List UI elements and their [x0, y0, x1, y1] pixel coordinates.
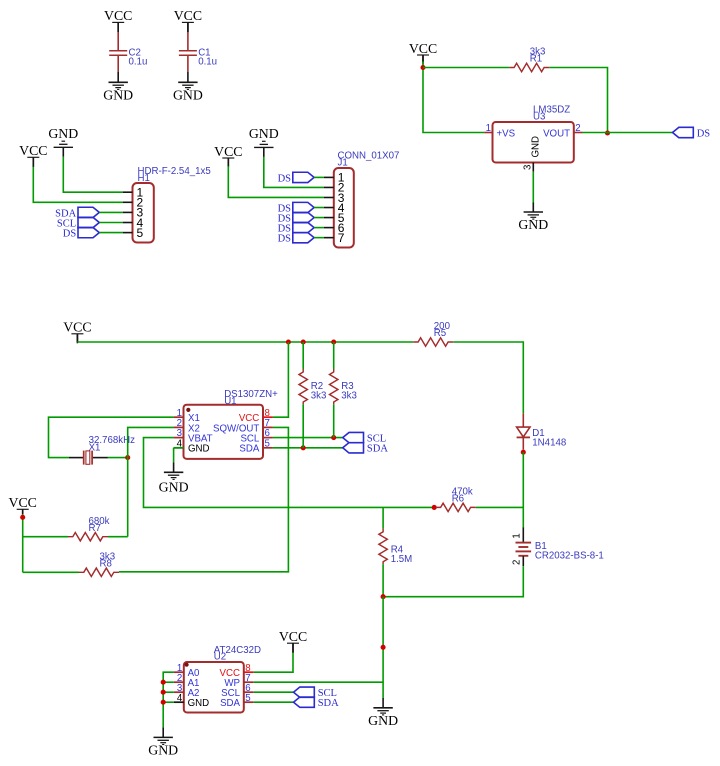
- node D1 cathode junction: [521, 450, 526, 455]
- wire DS to pin5: [314, 217, 324, 219]
- wire black GND stub: [162, 727, 164, 737]
- wire DS to pin4: [314, 207, 324, 209]
- ground (bottom right): [373, 707, 392, 709]
- svg-text:3: 3: [523, 165, 534, 170]
- resistor R5: [413, 338, 453, 346]
- wire VCC to U2 pin8: [254, 653, 293, 672]
- wire DS to pin6: [314, 227, 324, 229]
- wire crystal node down: [127, 458, 129, 537]
- connector J1 body: [334, 168, 354, 248]
- wire VCC down to U3 +VS: [423, 62, 484, 133]
- wire C1 to GND: [187, 72, 189, 83]
- wire black VCC stub: [292, 643, 294, 653]
- svg-text:5: 5: [137, 226, 144, 240]
- wire SQW/OUT to R8: [119, 427, 288, 571]
- svg-text:+VS: +VS: [497, 129, 516, 140]
- net flag DS (U3): [673, 127, 694, 137]
- resistor R2: [299, 369, 307, 404]
- wire X2: [128, 427, 174, 457]
- wire VCC to R1: [423, 67, 509, 69]
- pin 3 stub U2: [174, 691, 184, 693]
- wire DS to pin1: [314, 176, 324, 178]
- wire U2 SDA: [254, 701, 294, 703]
- pin 4 stub U1: [174, 447, 184, 449]
- diode D1 1N4148: [522, 413, 524, 427]
- pin 3 stub J1: [324, 196, 334, 198]
- svg-text:VCC: VCC: [279, 629, 307, 644]
- wire VCC to J1 pin3: [228, 166, 324, 197]
- svg-text:SDA: SDA: [318, 698, 339, 709]
- wire black VCC stub: [32, 157, 34, 167]
- wire black VCC stub: [22, 509, 24, 514]
- wire GND to J1 pin2: [264, 157, 324, 188]
- pin-1 marker U2: [185, 663, 189, 667]
- pin 6 stub U2: [244, 691, 254, 693]
- wire to R7: [23, 536, 68, 538]
- wire to R8: [23, 571, 79, 573]
- svg-text:VCC: VCC: [174, 8, 202, 23]
- svg-text:SDA: SDA: [239, 444, 259, 455]
- resistor R7: [68, 533, 108, 541]
- svg-text:VCC: VCC: [19, 143, 47, 158]
- wire U2 SCL: [254, 691, 294, 693]
- ground (U3): [524, 211, 543, 213]
- svg-text:0.1u: 0.1u: [129, 57, 148, 68]
- net flag SCL (H1 pin4): [78, 217, 99, 227]
- net flag DS (J1 pin7): [293, 232, 314, 242]
- net flag SDA (H1 pin3): [78, 207, 99, 217]
- wire R5 to D1: [453, 342, 523, 413]
- pin 6 stub U1: [263, 437, 273, 439]
- wire U1 VCC to rail: [273, 342, 289, 417]
- svg-text:SDA: SDA: [367, 444, 388, 455]
- node crystal/X2 junction: [125, 455, 130, 460]
- pin 2 stub J1: [324, 186, 334, 188]
- svg-text:0.1u: 0.1u: [198, 57, 217, 68]
- wire U2 pin3 to bus: [163, 691, 174, 693]
- pin 7 stub U1: [263, 426, 273, 428]
- net flag SDA (U2): [294, 697, 315, 707]
- svg-text:VOUT: VOUT: [543, 129, 570, 140]
- capacitor C2: [117, 32, 119, 50]
- wire black VCC stub: [422, 55, 424, 62]
- svg-text:GND: GND: [148, 742, 178, 757]
- ic U1 DS1307ZN+ body: [184, 405, 264, 459]
- svg-text:3k3: 3k3: [341, 391, 357, 402]
- wire DS to pin7: [314, 237, 324, 239]
- pin 3 stub H1: [123, 211, 133, 213]
- svg-text:X1: X1: [89, 442, 101, 453]
- resistor R6: [436, 503, 476, 511]
- net flag SCL (U2): [294, 687, 315, 697]
- pin 4 stub U2: [174, 701, 184, 703]
- pin 5 stub H1: [123, 232, 133, 234]
- wire SCL: [273, 437, 343, 439]
- resistor R8: [79, 568, 119, 576]
- svg-text:3k3: 3k3: [311, 391, 327, 402]
- wire VCC left column: [22, 514, 24, 572]
- svg-text:U1: U1: [224, 396, 236, 407]
- node VOUT junction: [605, 130, 610, 135]
- svg-text:GND: GND: [103, 87, 133, 102]
- wire D1 to B1: [522, 452, 524, 527]
- wire C2 to GND: [117, 72, 119, 83]
- node mid junction: [381, 645, 386, 650]
- wire VCC to C2: [117, 22, 119, 32]
- wire R1 to VOUT node: [549, 68, 607, 133]
- wire U3 GND down: [532, 172, 534, 203]
- wire U1 GND stub: [174, 447, 184, 449]
- svg-text:1.5M: 1.5M: [391, 554, 413, 565]
- pin 7 stub U2: [244, 681, 254, 683]
- resistor R3: [330, 369, 338, 404]
- svg-text:R5: R5: [434, 328, 446, 339]
- svg-text:GND: GND: [173, 87, 203, 102]
- pin 2 VOUT: [574, 132, 583, 134]
- pin 3 stub U1: [174, 437, 184, 439]
- pin 5 stub U1: [263, 447, 273, 449]
- wire SDA to pin3: [99, 211, 122, 213]
- wire U2 pin2 to bus: [163, 681, 174, 683]
- svg-text:H1: H1: [138, 173, 150, 184]
- pin 1 stub U1: [174, 416, 184, 418]
- wire rail to R2: [302, 342, 304, 369]
- wire B1 to R4 node: [383, 566, 523, 597]
- svg-text:4: 4: [177, 693, 183, 704]
- node R4 bottom junction: [381, 594, 386, 599]
- pin 4 stub H1: [123, 222, 133, 224]
- svg-text:DS: DS: [697, 128, 711, 139]
- svg-text:GND: GND: [188, 698, 210, 709]
- wire DS to pin5: [99, 232, 122, 234]
- svg-text:5: 5: [265, 438, 270, 449]
- wire black VCC stub: [76, 334, 78, 342]
- pin 2 stub U2: [174, 681, 184, 683]
- svg-text:R7: R7: [89, 523, 101, 534]
- wire SCL to pin4: [99, 222, 122, 224]
- pin 3 GND: [532, 163, 534, 172]
- wire U1 GND down: [173, 448, 175, 463]
- crystal X1 32.768kHz: [69, 457, 83, 459]
- wire X1 loop: [49, 417, 174, 457]
- net flag DS (J1 pin1): [293, 172, 314, 182]
- wire R3 to SCL: [333, 404, 335, 437]
- pin 8 stub U1: [263, 416, 273, 418]
- pin 1 +VS: [484, 132, 492, 134]
- svg-text:DS: DS: [278, 173, 292, 184]
- svg-text:VCC: VCC: [214, 144, 242, 159]
- svg-text:VCC: VCC: [409, 41, 437, 56]
- wire U2 address bus: [163, 672, 174, 727]
- capacitor C1: [187, 32, 189, 50]
- svg-text:U2: U2: [214, 652, 226, 663]
- net flag DS (J1 pin4): [293, 202, 314, 212]
- resistor R4: [379, 529, 387, 564]
- pin 2 stub H1: [123, 201, 133, 203]
- net flag DS (H1 pin5): [78, 227, 99, 237]
- wire U2 pin4 to bus: [163, 701, 174, 703]
- ground (U1): [164, 471, 183, 473]
- svg-text:7: 7: [338, 231, 345, 245]
- wire WP to GND net: [254, 681, 383, 683]
- svg-text:GND: GND: [48, 126, 78, 141]
- wire R6 to battery node: [476, 506, 524, 508]
- pin-1 marker U1: [186, 408, 190, 412]
- svg-text:VCC: VCC: [9, 495, 37, 510]
- svg-text:GND: GND: [518, 217, 548, 232]
- svg-text:GND: GND: [368, 713, 398, 728]
- net flag DS (J1 pin5): [293, 212, 314, 222]
- svg-text:U3: U3: [533, 111, 545, 122]
- resistor R1: [509, 63, 549, 71]
- svg-text:2: 2: [512, 560, 523, 565]
- svg-text:1N4148: 1N4148: [532, 438, 566, 449]
- pin 1 stub J1: [324, 176, 334, 178]
- pin 8 stub U2: [244, 671, 254, 673]
- op-amp U3 LM35DZ body: [493, 122, 574, 163]
- wire black GND stub: [382, 698, 384, 708]
- wire R2 to SDA: [302, 404, 304, 447]
- net flag DS (J1 pin6): [293, 222, 314, 232]
- net flag SCL (U1): [343, 432, 364, 442]
- wire VCC to C1: [187, 22, 189, 32]
- header H1 body: [133, 183, 154, 243]
- pin 1 stub U2: [174, 671, 184, 673]
- wire to R4: [382, 507, 384, 528]
- svg-text:5: 5: [245, 693, 250, 704]
- wire VCC rail: [77, 341, 413, 343]
- ic U2 AT24C32D body: [184, 662, 244, 713]
- wire GND to H1 pin1: [63, 157, 122, 192]
- node R6 left junction: [432, 505, 437, 510]
- wire SDA: [273, 447, 343, 449]
- svg-text:SDA: SDA: [220, 698, 240, 709]
- wire VOUT to DS flag: [583, 132, 673, 134]
- wire VBAT to R6: [144, 438, 435, 508]
- pin 5 stub U2: [244, 701, 254, 703]
- wire rail to R3: [333, 342, 335, 369]
- svg-text:CR2032-BS-8-1: CR2032-BS-8-1: [535, 551, 604, 562]
- net flag SDA (U1): [343, 443, 364, 453]
- ground (U2): [154, 736, 173, 738]
- wire VCC to H1 pin2: [33, 167, 122, 202]
- battery B1 CR2032-BS-8-1: [522, 527, 524, 542]
- pin 4 stub J1: [324, 207, 334, 209]
- svg-text:R6: R6: [452, 494, 464, 505]
- pin 1 stub H1: [123, 191, 133, 193]
- svg-text:DS: DS: [63, 229, 77, 240]
- ground (C2): [109, 81, 128, 83]
- svg-text:R8: R8: [100, 558, 112, 569]
- pin 5 stub J1: [324, 217, 334, 219]
- wire R4 down: [382, 564, 384, 597]
- svg-text:GND: GND: [249, 126, 279, 141]
- ground (C1): [178, 81, 197, 83]
- pin 2 stub U1: [174, 426, 184, 428]
- wire R4 node down: [382, 597, 384, 698]
- svg-text:GND: GND: [531, 136, 542, 158]
- svg-text:1: 1: [486, 123, 491, 134]
- svg-text:VCC: VCC: [104, 8, 132, 23]
- svg-text:GND: GND: [188, 444, 210, 455]
- wire black GND stub: [532, 203, 534, 213]
- svg-text:VCC: VCC: [63, 320, 91, 335]
- wire black VCC stub: [227, 158, 229, 166]
- pin 7 stub J1: [324, 237, 334, 239]
- wire R7 to crystal node: [108, 536, 128, 538]
- svg-text:J1: J1: [338, 158, 348, 169]
- svg-text:R1: R1: [530, 54, 542, 65]
- pin 6 stub J1: [324, 227, 334, 229]
- svg-text:GND: GND: [159, 480, 189, 495]
- wire crystal to node: [108, 457, 128, 459]
- svg-text:2: 2: [575, 123, 580, 134]
- svg-text:1: 1: [512, 533, 523, 538]
- svg-text:DS: DS: [278, 234, 292, 245]
